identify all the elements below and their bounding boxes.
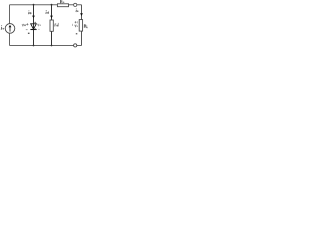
- label dash under v_D: [26, 28, 28, 31]
- node dot bottom-left junction: [33, 45, 35, 47]
- diode D cathode bar: [30, 29, 36, 31]
- current arrow i_d head: [50, 16, 53, 19]
- current arrow i_o head: [80, 13, 83, 16]
- label faint bar right of port plus: [76, 21, 78, 23]
- label v_D: [22, 24, 26, 26]
- port terminal top: [74, 3, 77, 6]
- label i_o: [76, 8, 79, 12]
- node dot top-left junction: [33, 4, 35, 6]
- resistor R_L: [79, 20, 82, 32]
- node dot top-mid junction: [51, 4, 53, 6]
- label i_s: [1, 25, 4, 30]
- wire diode branch: [33, 5, 35, 46]
- wire right border: [81, 5, 83, 46]
- label minus (below-left of diode): [28, 33, 30, 34]
- label R_s: [61, 0, 65, 3]
- wire left border: [9, 5, 11, 46]
- label v_o (port): [75, 25, 78, 27]
- node dot bottom-mid junction: [51, 45, 53, 47]
- label r_d: [55, 23, 58, 27]
- label minus marks (right of diode): [35, 27, 36, 30]
- diode D triangle: [31, 24, 37, 29]
- resistor R_s (horizontal): [57, 4, 68, 7]
- label plus (right of diode): [34, 22, 36, 24]
- label v_d: [38, 24, 41, 26]
- label small mark left of port plus: [71, 24, 74, 26]
- wire bottom rail: [10, 45, 82, 47]
- label plus (port): [75, 21, 77, 23]
- port terminal bottom: [74, 44, 77, 47]
- wire top rail: [10, 4, 82, 6]
- label i_d: [46, 10, 49, 14]
- label i_D: [28, 10, 31, 14]
- resistor r_d: [50, 20, 53, 31]
- current source I_s: [5, 24, 15, 34]
- wire rd branch: [51, 5, 53, 46]
- current arrow i_D head: [32, 16, 35, 19]
- label plus (left of diode): [26, 23, 28, 25]
- label R_L: [84, 24, 88, 28]
- label minus (port): [76, 33, 78, 34]
